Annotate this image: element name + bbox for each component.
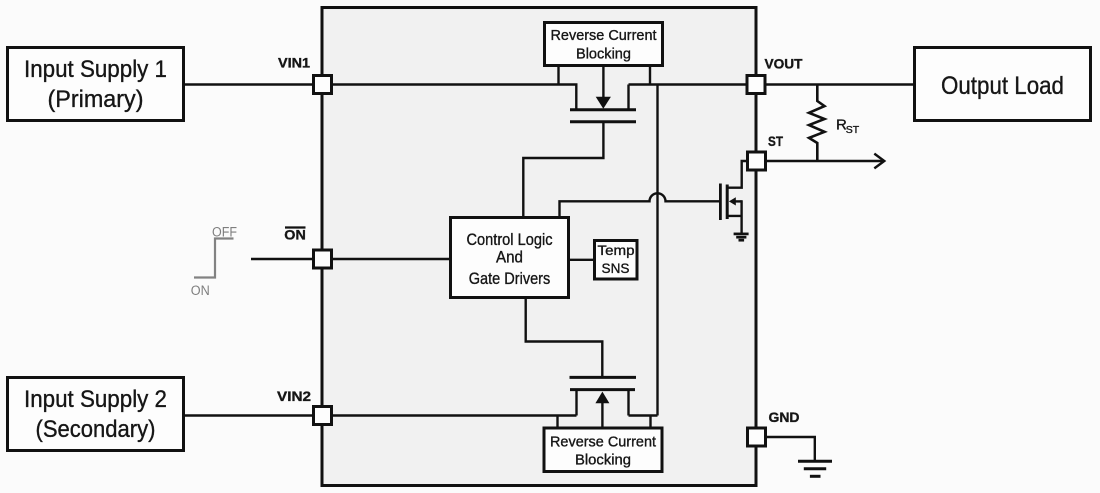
transistor Q2: bottom reverse-blocking FET xyxy=(570,377,658,415)
svg-text:Output Load: Output Load xyxy=(941,72,1064,100)
svg-text:Reverse Current: Reverse Current xyxy=(551,28,657,44)
transistor Q3: ST status FET xyxy=(720,161,747,233)
svg-text:OFF: OFF xyxy=(212,225,237,240)
block: Input Supply 1 (Primary) xyxy=(8,48,184,121)
ground (Q3 source) xyxy=(734,234,749,240)
wire: Control Logic to Q3 gate (with hop over node line) xyxy=(560,193,720,216)
gate bar xyxy=(570,120,636,123)
drain connection up to ST pin xyxy=(727,161,747,188)
label ON (with overline) xyxy=(284,227,306,243)
block: Control Logic And Gate Drivers xyxy=(451,218,569,298)
wire: Input Supply 2 to VIN2 pin xyxy=(184,414,314,416)
gate bar xyxy=(570,376,637,379)
wire: GND pin to ground symbol xyxy=(766,437,815,461)
wire: VOUT rail (drain stub to VOUT pin) xyxy=(629,83,748,85)
pin VIN2 xyxy=(314,407,332,425)
svg-text:VOUT: VOUT xyxy=(765,56,803,72)
svg-text:ST: ST xyxy=(846,124,860,136)
wire: RCB top box right lead to VOUT rail xyxy=(649,66,651,85)
svg-text:Blocking: Blocking xyxy=(576,47,631,63)
block: Reverse Current Blocking (bottom) xyxy=(544,428,662,472)
wire: RCB top box left lead to VIN1 rail xyxy=(557,66,559,85)
wire: Input Supply 1 to VIN1 pin xyxy=(184,83,314,85)
drain horizontal segment to node line xyxy=(629,414,658,416)
svg-text:ST: ST xyxy=(768,133,783,149)
wire: RCB bottom box right lead to drain segment xyxy=(649,416,651,429)
drain stub to VOUT rail xyxy=(627,85,629,111)
wire: Control Logic to Q2 gate xyxy=(526,299,603,377)
wire: common node vertical (top FET drain to bottom FET drain) xyxy=(656,85,658,416)
wire: waveform to ON pin xyxy=(251,258,313,260)
block: Reverse Current Blocking (top) xyxy=(545,23,663,66)
block: Output Load xyxy=(915,48,1091,121)
label RST xyxy=(836,117,860,137)
svg-text:Temp: Temp xyxy=(598,242,635,258)
channel bar xyxy=(570,388,635,391)
block: Temp SNS xyxy=(595,241,638,280)
svg-text:ON: ON xyxy=(284,227,306,243)
pin GND xyxy=(748,428,766,446)
block: Input Supply 2 (Secondary) xyxy=(8,378,184,451)
svg-text:VIN2: VIN2 xyxy=(277,388,311,404)
svg-text:Input Supply 1: Input Supply 1 xyxy=(24,56,167,83)
source stub from VIN2 rail xyxy=(575,389,577,416)
svg-text:Control Logic: Control Logic xyxy=(467,231,553,249)
ON/OFF input waveform (gray step) xyxy=(194,239,234,278)
wire: VOUT pin to output load / RST junction xyxy=(765,83,915,85)
wire: Q1 gate to Control Logic xyxy=(523,123,603,217)
gate bar xyxy=(719,184,722,221)
channel bar xyxy=(570,108,636,111)
pin VOUT xyxy=(747,76,765,94)
source stub from VIN1 rail xyxy=(575,85,577,111)
pin VIN1 xyxy=(314,76,332,94)
ground (GND pin) xyxy=(798,461,832,476)
IC body (shaded block) xyxy=(322,8,756,486)
body-diode arrow of bottom FET (pointing up into channel) xyxy=(595,392,609,427)
svg-text:GND: GND xyxy=(769,409,800,425)
svg-text:VIN1: VIN1 xyxy=(278,55,310,71)
transistor Q1: top reverse-blocking FET xyxy=(570,85,636,122)
wire: ON pin to Control Logic xyxy=(332,258,451,260)
wire: Control Logic to Temp SNS xyxy=(569,259,594,261)
svg-text:Reverse Current: Reverse Current xyxy=(550,435,656,451)
wire: ST pin to status output arrow xyxy=(765,154,884,169)
channel bar xyxy=(726,185,729,220)
source down to ground (body tied to source) xyxy=(727,200,741,233)
svg-text:(Primary): (Primary) xyxy=(48,86,144,113)
wire: VIN1 rail (pin to source stub) xyxy=(332,83,578,85)
svg-text:(Secondary): (Secondary) xyxy=(36,416,156,443)
svg-text:SNS: SNS xyxy=(602,260,630,276)
wire: RCB bottom box left lead to VIN2 rail xyxy=(556,416,558,429)
wire: VIN2 rail (pin to Q2 source stub) xyxy=(332,414,577,416)
pin ST xyxy=(748,152,766,170)
svg-text:Gate Drivers: Gate Drivers xyxy=(469,270,551,288)
drain stub down to common node xyxy=(627,389,629,416)
body-diode arrow of top FET (pointing down into channel) xyxy=(596,66,611,109)
body contact with arrow pointing into channel xyxy=(736,200,742,202)
svg-text:ON: ON xyxy=(191,283,210,298)
pin ON xyxy=(314,250,332,268)
resistor RST xyxy=(809,85,825,162)
svg-text:And: And xyxy=(496,249,523,267)
svg-text:Input Supply 2: Input Supply 2 xyxy=(24,386,167,413)
svg-text:Blocking: Blocking xyxy=(575,453,631,469)
